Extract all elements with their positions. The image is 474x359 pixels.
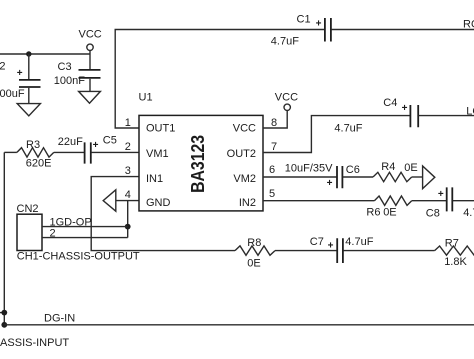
- wire: IN2 net: [263, 200, 374, 202]
- connector CN2: [17, 203, 43, 250]
- wire: CN2 pin1 GD-OP: [42, 216, 128, 228]
- svg-text:C8: C8: [426, 208, 440, 220]
- power VCC symbol (left): [79, 29, 102, 55]
- net label CH1-CHASSIS-OUTPUT: [17, 250, 140, 262]
- svg-text:4.7uF: 4.7uF: [271, 36, 299, 48]
- svg-text:2: 2: [50, 227, 56, 239]
- svg-text:+: +: [17, 68, 23, 79]
- svg-text:R8: R8: [247, 237, 261, 249]
- svg-text:CH1-CHASSIS-INPUT: CH1-CHASSIS-INPUT: [0, 337, 69, 349]
- capacitor C7 4.7uF: [310, 236, 435, 263]
- svg-text:OUT1: OUT1: [146, 123, 175, 135]
- svg-text:5: 5: [269, 188, 275, 200]
- svg-text:+: +: [438, 189, 444, 200]
- svg-text:OUT2: OUT2: [227, 148, 256, 160]
- svg-text:6: 6: [269, 164, 275, 176]
- pin numbers right: [269, 117, 277, 200]
- node: junction dot input stub: [0, 310, 7, 316]
- svg-text:8: 8: [271, 117, 277, 129]
- svg-text:3: 3: [125, 165, 131, 177]
- node: junction dot GD-OP: [125, 224, 131, 230]
- wire: CN2 pin2: [42, 227, 128, 239]
- resistor R4 0E: [373, 161, 423, 182]
- net label CH1-CHASSIS-INPUT (clipped left): [0, 337, 69, 349]
- svg-text:4.7uF: 4.7uF: [334, 123, 362, 135]
- svg-text:100uF: 100uF: [0, 88, 25, 100]
- svg-text:VM1: VM1: [146, 148, 169, 160]
- svg-text:C2: C2: [0, 60, 5, 72]
- svg-text:100nF: 100nF: [54, 75, 85, 87]
- wire: VM2 net: [263, 163, 337, 177]
- wire: left vertical bus: [3, 152, 5, 324]
- capacitor C3 100nF: [54, 54, 101, 91]
- node: junction dot on VCC rail: [26, 51, 31, 56]
- svg-text:C1: C1: [297, 14, 311, 26]
- svg-text:VCC: VCC: [233, 123, 256, 135]
- svg-text:1: 1: [125, 117, 131, 129]
- svg-text:LOU: LOU: [466, 106, 474, 118]
- capacitor C6 10uF/35V: [327, 164, 373, 189]
- node: junction dot DG-IN: [1, 322, 7, 328]
- svg-text:VM2: VM2: [233, 173, 256, 185]
- svg-text:GND: GND: [146, 197, 171, 209]
- svg-text:620E: 620E: [26, 158, 52, 170]
- wire: GND to CN2 vertical: [127, 201, 129, 238]
- svg-text:CH1-CHASSIS-OUTPUT: CH1-CHASSIS-OUTPUT: [17, 250, 140, 262]
- svg-text:C6: C6: [346, 164, 360, 176]
- svg-text:R3: R3: [26, 139, 40, 151]
- svg-text:10uF/35V: 10uF/35V: [285, 163, 333, 175]
- off-page arrow (after R4, points right): [423, 166, 435, 189]
- op-amp U1 BA3123: [139, 92, 264, 211]
- svg-text:2: 2: [125, 141, 131, 153]
- capacitor C2 (clipped at left edge, 100uF): [0, 54, 40, 103]
- svg-text:0E: 0E: [404, 162, 417, 174]
- svg-text:7: 7: [271, 141, 277, 153]
- svg-text:+: +: [328, 240, 334, 251]
- wire: VCC rail top-left: [0, 53, 90, 55]
- svg-text:DG-IN: DG-IN: [44, 313, 75, 325]
- wire: OUT2 net up and right: [263, 116, 410, 153]
- svg-text:VCC: VCC: [275, 92, 298, 104]
- svg-text:R7: R7: [445, 237, 459, 249]
- svg-text:C4: C4: [383, 97, 397, 109]
- svg-text:+: +: [327, 178, 333, 189]
- svg-text:ROU: ROU: [463, 19, 474, 31]
- capacitor C1 4.7uF: [271, 14, 474, 48]
- svg-text:+: +: [93, 140, 99, 151]
- resistor R8 0E: [235, 237, 337, 269]
- svg-text:IN2: IN2: [239, 197, 256, 209]
- node: ROUT label (clipped right edge): [463, 19, 474, 31]
- svg-text:4: 4: [125, 189, 131, 201]
- resistor R7 1.8K (clipped right): [435, 237, 474, 268]
- ground (below C2): [17, 104, 40, 116]
- svg-text:IN1: IN1: [146, 173, 163, 185]
- wire: IN1 net down-left and across bottom: [91, 177, 235, 251]
- resistor R6 0E: [366, 196, 446, 218]
- off-page arrow (GND pin4, points left): [103, 190, 139, 211]
- svg-text:1GD-OP: 1GD-OP: [50, 216, 92, 228]
- svg-text:0E: 0E: [247, 258, 260, 270]
- ground (below C3): [79, 91, 101, 103]
- capacitor C5 22uF: [58, 135, 139, 164]
- svg-text:C3: C3: [58, 61, 72, 73]
- svg-text:1.8K: 1.8K: [444, 256, 467, 268]
- svg-text:+: +: [402, 103, 408, 114]
- svg-text:4.7uF: 4.7uF: [463, 207, 474, 219]
- wire: DG-IN: [4, 313, 474, 325]
- power VCC symbol (pin8): [275, 92, 298, 111]
- svg-text:U1: U1: [139, 92, 153, 104]
- svg-text:+: +: [316, 19, 322, 30]
- svg-text:22uF: 22uF: [58, 136, 83, 148]
- svg-text:VCC: VCC: [79, 29, 102, 41]
- svg-text:4.7uF: 4.7uF: [345, 236, 373, 248]
- pin numbers left: [125, 117, 131, 201]
- svg-text:C5: C5: [103, 135, 117, 147]
- svg-text:CN2: CN2: [17, 203, 39, 215]
- capacitor C8 4.7uF (clipped right): [426, 187, 474, 219]
- svg-text:R4: R4: [381, 161, 395, 173]
- svg-text:BA3123: BA3123: [187, 135, 208, 193]
- svg-text:R6: R6: [366, 206, 380, 218]
- node: LOUT label (clipped right edge): [466, 106, 474, 118]
- wire: OUT1 net (pin1 up and across top): [115, 30, 324, 129]
- svg-text:0E: 0E: [383, 206, 396, 218]
- resistor R3 620E: [4, 139, 84, 170]
- wire: pin8 to VCC: [263, 111, 287, 129]
- capacitor C4 4.7uF: [334, 97, 474, 135]
- svg-text:C7: C7: [310, 236, 324, 248]
